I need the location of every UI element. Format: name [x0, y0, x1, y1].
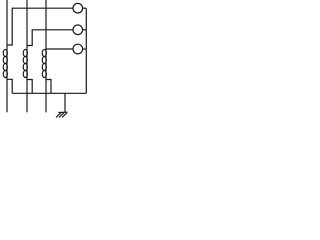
- wire feeder phase 3: [45, 0, 47, 112]
- ground: [56, 112, 68, 117]
- wire feeder phase 1: [6, 0, 8, 112]
- terminal circle 3: [73, 44, 83, 54]
- wire ground stem: [64, 93, 66, 112]
- inductor L2: [23, 49, 27, 77]
- inductor L1: [3, 49, 7, 77]
- wire coil 2 bottom to bus: [27, 80, 32, 94]
- wire neutral bus: [12, 92, 86, 94]
- wire coil 3 bottom to bus: [46, 80, 51, 94]
- wire right rail: [85, 8, 87, 93]
- wire terminal 3 to right rail: [83, 48, 87, 50]
- wire tap 2 to terminal 2: [27, 30, 73, 46]
- wire coil 1 bottom to bus: [7, 79, 12, 93]
- wire terminal 2 to right rail: [83, 29, 87, 31]
- wire terminal 1 to right rail: [83, 7, 87, 9]
- wire feeder phase 2: [26, 0, 28, 112]
- inductor L3: [42, 49, 46, 77]
- terminal circle 2: [73, 25, 83, 35]
- wire tap 3 to terminal 3: [46, 48, 73, 50]
- terminal circle 1: [73, 3, 83, 13]
- wire tap 1 to terminal 1: [7, 8, 73, 45]
